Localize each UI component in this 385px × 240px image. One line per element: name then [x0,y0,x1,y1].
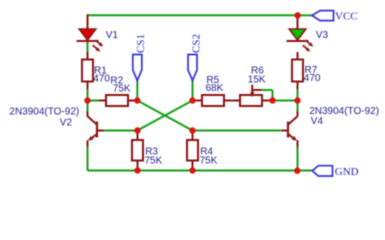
svg-text:75K: 75K [200,156,218,167]
wire cross diagonal CS2 to R3 [137,101,192,131]
svg-text:15K: 15K [248,74,266,85]
svg-text:V1: V1 [106,30,119,41]
wire V4 emitter to ground rail [297,147,299,171]
wire R4 top stub [192,131,194,135]
node R3 top junction [134,127,140,133]
svg-text:470: 470 [93,73,110,84]
node R4 top junction [189,127,195,133]
transistor V2 [88,112,104,148]
tag CS2 [188,55,197,81]
node VCC junction [294,12,300,18]
svg-text:68K: 68K [206,83,224,94]
LED V3 [287,14,314,52]
svg-text:75K: 75K [145,156,163,167]
wire cross diagonal CS1 to R4 [137,101,192,131]
wire node C to V4 collector [297,101,299,113]
node A junction [84,97,90,103]
wire R7 to node C [297,89,299,101]
svg-text:CS1: CS1 [135,34,147,53]
resistor R3 [132,134,143,168]
node C junction [294,97,300,103]
node R3 bottom junction [134,167,140,173]
wire V2 emitter to ground rail [87,147,89,171]
wire V4 base [193,130,282,132]
wire R3 top stub [137,131,139,135]
svg-text:GND: GND [335,166,359,178]
wire R6 wiper down to node B [272,90,274,101]
wire CS1 tag drop [136,80,138,101]
svg-text:V2: V2 [60,117,73,128]
node V4 emitter junction [294,168,300,174]
wire node B to node C [273,100,298,102]
node CS1 junction [134,97,140,103]
LED V1 [77,14,104,52]
tag CS1 [133,55,142,81]
svg-text:VCC: VCC [335,11,358,23]
wire VCC tag stub [298,14,312,16]
wire CS2 tag drop [192,80,194,101]
transistor V4 [281,112,297,148]
tag VCC [312,11,334,21]
wire R2 to node CS1 [135,100,138,102]
node R4 bottom junction [189,167,195,173]
wire node A to R2 [88,100,100,102]
resistor R2 [99,95,135,106]
resistor R5 [195,95,232,106]
resistor R4 [187,134,198,168]
wire ground bottom rail [88,170,313,172]
wire node CS2 to R5 [193,100,196,102]
wire node A to V2 collector [87,101,89,113]
node CS2 junction [189,97,195,103]
resistor R7 [292,52,303,89]
svg-text:V4: V4 [311,116,324,127]
resistor R1 [82,52,93,89]
tag GND [312,166,332,176]
wire V2 base [104,130,138,132]
wire VCC top rail [88,14,298,16]
wire R1 to node A [87,89,89,101]
wire R6 right pin to node B [269,100,273,102]
svg-text:CS2: CS2 [190,34,202,53]
wire R3 bottom stub [137,167,139,171]
potentiometer R6 [232,85,269,106]
node B junction [269,97,275,103]
wire V1 cathode to R1 [87,42,89,53]
wire R6 wiper horizontal [261,89,273,91]
wire R4 bottom stub [192,167,194,171]
svg-text:470: 470 [304,73,321,84]
svg-text:2N3904(TO-92): 2N3904(TO-92) [9,106,79,117]
svg-text:75K: 75K [113,84,131,95]
svg-text:V3: V3 [316,30,329,41]
